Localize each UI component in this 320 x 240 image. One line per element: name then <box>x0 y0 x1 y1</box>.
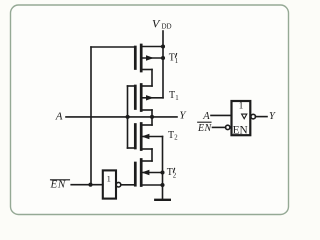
node gate bus junction <box>126 115 130 119</box>
node T1' drain junction <box>161 44 165 48</box>
transistor T1 <box>135 85 163 111</box>
wire EN-bar to T1' gate vertical <box>90 47 92 185</box>
ground <box>155 199 170 201</box>
node T2' substrate junction <box>160 170 164 174</box>
svg-text:T: T <box>168 130 174 141</box>
wire Y output of symbol <box>256 116 268 118</box>
node T1' substrate junction <box>161 56 165 60</box>
symbol output bubble <box>251 114 256 119</box>
node EN-bar junction <box>88 183 92 187</box>
label T2' <box>167 167 177 179</box>
node T2' source junction <box>160 183 164 187</box>
wire T2 gate lead <box>128 147 136 149</box>
svg-text:1: 1 <box>239 102 244 112</box>
svg-text:1: 1 <box>175 58 178 65</box>
wire VDD rail <box>162 31 164 98</box>
node output Y junction <box>150 115 154 119</box>
wire T1' source to T1 drain <box>151 70 153 87</box>
label EN-bar input <box>50 179 66 191</box>
svg-text:1: 1 <box>107 174 111 184</box>
svg-text:1: 1 <box>175 95 178 102</box>
wire EN-bar input <box>71 184 103 186</box>
inverter U1 <box>103 170 116 198</box>
wire A input to symbol <box>211 114 232 116</box>
transistor T1' <box>135 45 163 71</box>
label T1 <box>169 90 179 102</box>
svg-text:DD: DD <box>162 23 172 31</box>
svg-text:A: A <box>55 110 63 122</box>
wire T2 source to T2' drain <box>151 149 153 161</box>
svg-text:2: 2 <box>174 135 178 142</box>
wire T2 substrate rail down to ground <box>162 137 164 200</box>
svg-text:EN: EN <box>233 124 248 136</box>
svg-text:EN: EN <box>197 123 213 134</box>
svg-text:T: T <box>169 90 175 101</box>
wire T1 source to output node <box>151 110 153 125</box>
label T2 <box>168 130 178 142</box>
wire input A to Y <box>66 116 177 118</box>
transistor T2 <box>135 124 162 150</box>
tri-state gate symbol U2 <box>232 101 251 135</box>
tri-state output marker <box>242 114 247 119</box>
wire T1' gate lead <box>91 46 135 48</box>
wire EN-bar input to symbol <box>213 126 226 128</box>
svg-text:A: A <box>202 111 210 122</box>
wire gate bus from A <box>127 86 129 148</box>
label T1' <box>169 53 178 65</box>
inverter U1 output bubble <box>116 182 121 187</box>
label VDD <box>152 17 172 31</box>
transistor T2' <box>135 160 162 186</box>
wire inverter output to T2' gate <box>121 184 136 186</box>
wire T1 gate lead <box>128 85 136 87</box>
svg-text:2: 2 <box>173 172 177 179</box>
symbol EN input bubble <box>226 125 230 129</box>
